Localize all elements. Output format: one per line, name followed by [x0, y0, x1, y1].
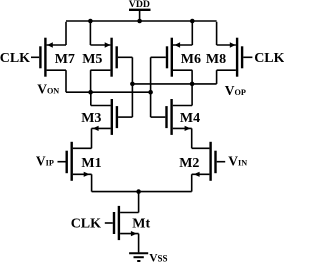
svg-text:CLK: CLK [0, 51, 30, 66]
wire: VOP line [132, 83, 216, 85]
wire: M6 drain down to VOP [191, 70, 193, 84]
wire: VON line [66, 91, 151, 93]
transistor M1 (NMOS input, VIP) [58, 142, 92, 181]
svg-text:M3: M3 [81, 111, 101, 126]
wire: M2 source down to tail [191, 174, 193, 191]
svg-text:M4: M4 [180, 111, 200, 126]
wire: M4 source down to M2 drain [191, 128, 193, 148]
transistor M5 (PMOS, cross-coupled) [90, 38, 132, 77]
ground symbol (VSS) [129, 253, 148, 261]
transistor Mt (NMOS tail, clocked) [105, 206, 139, 240]
VDD power symbol bar [129, 9, 151, 11]
wire: M8 source up to VDD rail [216, 22, 218, 45]
junction: VDD stub at rail [137, 19, 142, 24]
wire: M1 source down to tail [91, 174, 93, 191]
transistor M8 (PMOS, clocked) [217, 38, 253, 77]
wire: M6/M4 gate vertical (to VON) [150, 57, 152, 117]
svg-text:CLK: CLK [254, 51, 284, 66]
wire: VDD stub to rail [139, 10, 141, 21]
junction: tail at Mt drain [136, 189, 141, 194]
junction: VON at M5/M3 drains [88, 90, 93, 95]
junction: VON at M4/M6 gate line [148, 90, 153, 95]
wire: Mt source down to VSS [138, 234, 140, 253]
wire: M6 source up to VDD rail [191, 21, 193, 45]
wire: M3 drain up to VON [90, 92, 92, 105]
transistor M2 (NMOS input, VIN) [192, 142, 226, 181]
svg-text:M5: M5 [82, 52, 102, 67]
svg-text:CLK: CLK [71, 216, 101, 231]
junction: VOP at M3/M5 gate line [130, 82, 135, 87]
wire: M5/M3 gate vertical (to VOP) [131, 57, 133, 117]
wire: M5 source up to VDD rail [89, 21, 91, 45]
svg-text:M2: M2 [179, 156, 199, 171]
svg-text:M1: M1 [81, 156, 101, 171]
transistor M7 (PMOS, clocked) [31, 38, 66, 77]
wire: Mt drain up to tail [138, 192, 140, 213]
transistor M6 (PMOS, cross-coupled) [151, 38, 193, 77]
svg-text:M8: M8 [206, 52, 226, 67]
junction: M5 source at VDD rail [88, 19, 93, 24]
wire: VDD rail [66, 20, 217, 22]
junction: VOP at M6/M4 drains [190, 82, 195, 87]
svg-text:M7: M7 [55, 52, 75, 67]
svg-text:Mt: Mt [132, 217, 150, 232]
wire: tail node line [92, 191, 192, 193]
wire: M7 drain down to VON [65, 70, 67, 92]
svg-text:M6: M6 [181, 52, 201, 67]
wire: M4 drain up to VOP [191, 84, 193, 106]
wire: M8 drain down to VOP [216, 70, 218, 84]
transistor M3 (NMOS, cross-coupled) [91, 99, 133, 135]
svg-text:VDD: VDD [129, 0, 150, 10]
junction: M6 source at VDD rail [190, 19, 195, 24]
wire: M5 drain down to VON [90, 70, 92, 92]
wire: M7 source up to VDD rail [65, 22, 67, 45]
transistor M4 (NMOS, cross-coupled) [151, 99, 193, 135]
wire: M3 source down to M1 drain [91, 128, 93, 148]
svg-text:VSS: VSS [149, 252, 167, 264]
